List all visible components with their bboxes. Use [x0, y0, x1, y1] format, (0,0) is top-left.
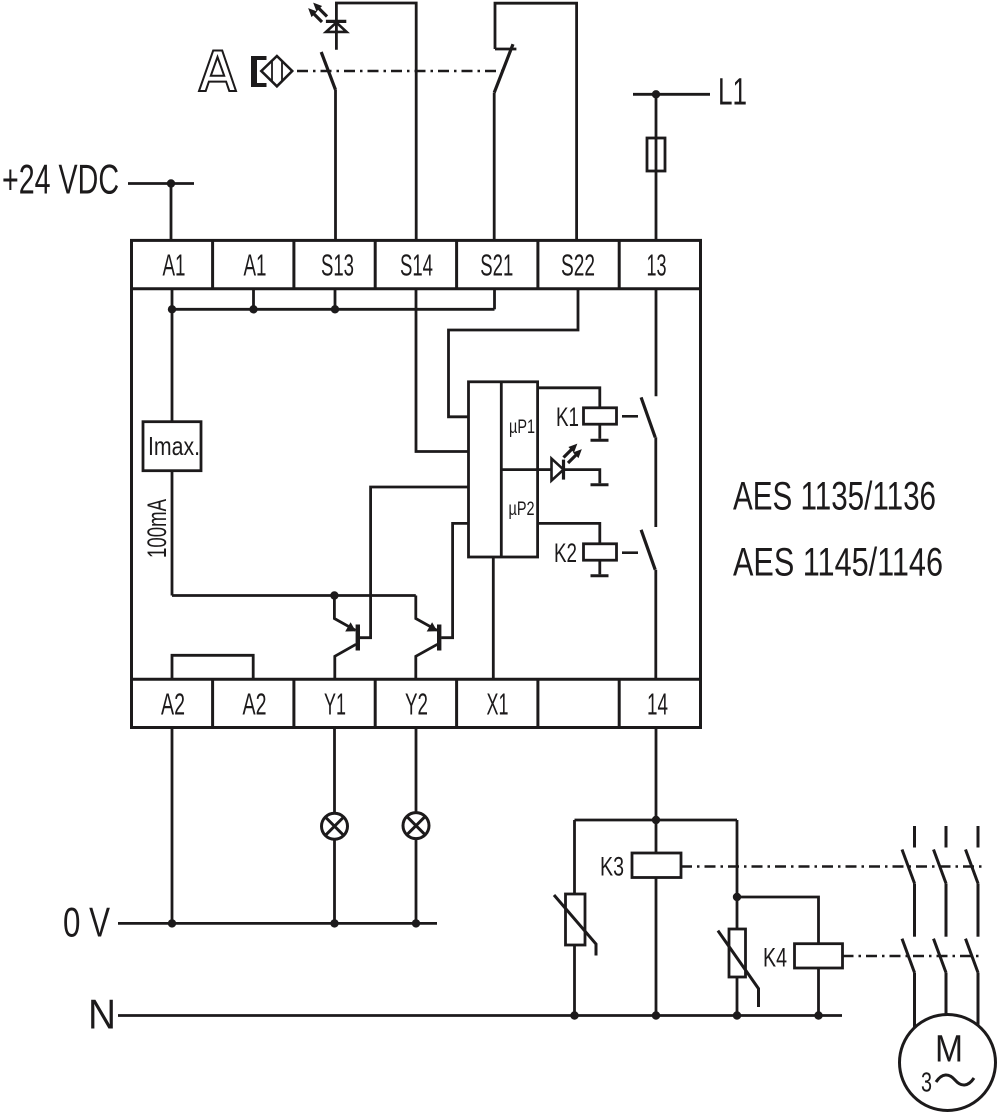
block uP outline	[469, 382, 538, 557]
junction emitter bus	[330, 591, 338, 599]
svg-text:S22: S22	[561, 248, 595, 283]
relay coil K1	[584, 408, 617, 424]
terminal row top bottom edge	[132, 287, 701, 290]
wire Imax to emitter bus	[171, 471, 174, 596]
svg-text:µP2: µP2	[509, 499, 535, 520]
contactor coil K3	[632, 853, 681, 878]
contact K3 phase 2	[934, 826, 947, 937]
junction N varistor2	[733, 1011, 741, 1019]
svg-text:S14: S14	[400, 248, 433, 283]
wire K3 coil to N	[655, 878, 658, 1016]
junction L1	[652, 90, 660, 98]
wire varistor1 top	[573, 820, 576, 894]
sensor magnet bracket	[251, 56, 267, 87]
wire A1 to Imax	[171, 309, 174, 421]
contact sensor NC stub	[495, 48, 516, 51]
LED D1 arrow 2	[309, 9, 322, 22]
LED D2 arrow 2	[568, 450, 581, 463]
transistor Q1 emitter arrow	[345, 622, 356, 631]
svg-text:Y1: Y1	[324, 687, 346, 722]
svg-text:S21: S21	[480, 248, 513, 283]
svg-text:µP1: µP1	[509, 417, 535, 438]
svg-text:AES 1135/1136: AES 1135/1136	[733, 475, 936, 519]
terminal dividers bottom row	[213, 679, 620, 727]
LED D2 wire from uP	[538, 468, 552, 471]
sensor diamond inner chord left	[271, 61, 273, 81]
relay coil K2	[584, 544, 617, 560]
svg-text:AES 1145/1146: AES 1145/1146	[733, 541, 943, 585]
transistor Q1 base wire	[360, 487, 469, 638]
transistor Q1 collector	[335, 644, 356, 679]
wire varistor1 to N	[573, 945, 576, 1016]
wire A1 drop to terminal	[170, 184, 173, 241]
wire +24VDC feed	[128, 182, 194, 185]
wire 13 internal	[655, 289, 658, 397]
jumper A2-A2	[172, 655, 253, 679]
contactor coil K4	[795, 944, 843, 968]
motor M1 tilde	[936, 1075, 974, 1085]
wire 14 drop	[655, 728, 658, 854]
svg-text:3: 3	[921, 1067, 932, 1098]
transistor Q2 collector	[416, 644, 438, 679]
wire K4 coil to N	[817, 968, 820, 1016]
wire L1 feed	[633, 93, 710, 96]
wire S14 internal	[416, 289, 469, 452]
junction 0V Y2	[412, 919, 420, 927]
svg-text:K2: K2	[554, 538, 577, 568]
junction K4 branch	[733, 893, 741, 901]
contact K4 phase 3	[966, 939, 979, 1026]
wire 0V line	[118, 922, 437, 925]
svg-text:+24 VDC: +24 VDC	[2, 156, 119, 203]
svg-text:S13: S13	[321, 248, 354, 283]
svg-text:14: 14	[647, 687, 668, 722]
link dashed K3	[681, 865, 983, 868]
wire K1-K2 series	[654, 437, 657, 527]
wire branch bus	[575, 819, 738, 822]
actuator link dashed line	[297, 70, 502, 73]
wire Y2 to lamp	[415, 728, 418, 813]
svg-text:X1: X1	[487, 687, 509, 722]
svg-text:L1: L1	[718, 72, 747, 114]
svg-text:Y2: Y2	[405, 687, 428, 722]
contact K3 phase 3	[966, 826, 979, 937]
svg-text:A1: A1	[244, 248, 267, 283]
lamp H2	[403, 813, 429, 839]
wire K4 branch drop	[736, 820, 739, 929]
link dash K1	[622, 415, 638, 418]
lamp H1	[322, 813, 348, 839]
contact K1 arm	[641, 397, 655, 437]
LED D2 arrow 1	[564, 445, 577, 458]
sensor proximity diamond	[261, 56, 292, 86]
svg-text:K1: K1	[556, 402, 579, 432]
wire sensor loop top	[336, 3, 416, 241]
module AES outline	[132, 240, 701, 727]
transistor Q2 base wire	[441, 523, 468, 637]
wire lamp H1 to 0V	[333, 839, 336, 923]
contact K3 phase 1	[902, 826, 915, 937]
wire branch to K4 coil	[737, 897, 819, 944]
common T symbol K2	[591, 574, 609, 577]
svg-text:N: N	[88, 991, 116, 1038]
wire varistor2 to N	[736, 977, 739, 1016]
motor M1 circle	[900, 1015, 996, 1111]
wire Y1 to lamp	[333, 728, 336, 814]
LED D1 arrow 1	[314, 4, 327, 17]
svg-text:A2: A2	[243, 687, 267, 722]
wire N line	[118, 1014, 842, 1017]
link dash K2	[622, 551, 638, 554]
terminal row bottom top edge	[132, 678, 701, 681]
wire S21-S22 loop top	[495, 3, 577, 240]
LED D2 triangle	[552, 459, 564, 481]
wire X1 from uP	[492, 557, 495, 679]
transistor Q1 emitter	[334, 596, 355, 631]
wire S21 drop	[493, 93, 496, 241]
junction 14 branch	[652, 816, 660, 824]
transistor Q2 emitter arrow	[427, 622, 438, 631]
junction N K4	[814, 1011, 822, 1019]
junction bus A1b	[249, 305, 257, 313]
svg-text:Imax.: Imax.	[148, 431, 200, 461]
svg-text:13: 13	[647, 248, 667, 283]
wire A2 to 0V	[171, 728, 174, 924]
varistor R1	[566, 894, 586, 945]
LED D2 cathode bar	[562, 460, 565, 480]
contact sensor NC arm	[494, 44, 513, 92]
junction 0V A2	[168, 919, 176, 927]
junction 0V Y1	[330, 919, 338, 927]
wire S21 stub	[493, 289, 496, 310]
junction N varistor1	[570, 1011, 578, 1019]
contact K2 arm	[641, 530, 655, 570]
svg-text:A1: A1	[163, 248, 186, 283]
LED D1 cathode bar	[326, 20, 346, 23]
wire lamp H2 to 0V	[415, 839, 418, 924]
wire S13 stub	[334, 289, 337, 310]
svg-text:100mA: 100mA	[142, 499, 172, 558]
contact K4 phase 1	[902, 939, 915, 1027]
contact K4 phase 2	[934, 939, 947, 1015]
link dashed K4	[843, 955, 984, 958]
wire LED to common	[564, 470, 600, 484]
common T symbol LED	[591, 483, 609, 486]
junction bus S13	[331, 305, 339, 313]
block uP divider vertical	[500, 382, 503, 557]
junction bus A1	[168, 305, 176, 313]
junction N K3	[652, 1011, 660, 1019]
varistor R2	[729, 929, 746, 977]
wire A1b stub	[252, 289, 255, 310]
wire internal A1 bus	[171, 289, 174, 310]
wire L1 to terminal 13	[655, 94, 658, 240]
svg-text:K3: K3	[600, 852, 624, 882]
svg-text:0 V: 0 V	[63, 899, 110, 946]
wire K2 coil to common	[598, 560, 601, 574]
sensor diamond inner chord right	[281, 61, 283, 81]
wire K2 contact to 14	[654, 570, 657, 680]
transistor Q1 base bar	[356, 625, 360, 651]
wire uP1 to K1 coil	[538, 388, 600, 408]
block uP divider horizontal	[501, 468, 537, 471]
node A actuator label	[199, 51, 236, 92]
wire S13 drop	[334, 90, 337, 241]
wire K1 coil to common	[598, 424, 601, 439]
svg-text:M: M	[935, 1029, 963, 1071]
contact sensor NO arm	[321, 52, 335, 90]
terminal dividers top row	[213, 240, 620, 288]
transistor Q2 base bar	[437, 625, 441, 651]
svg-text:K4: K4	[763, 943, 787, 973]
transistor Q2 emitter	[416, 596, 437, 631]
wire uP2 to K2 coil	[538, 523, 600, 543]
svg-text:A2: A2	[161, 687, 185, 722]
junction +24VDC/A1	[167, 179, 175, 187]
block Imax	[143, 422, 201, 471]
wire emitter bus	[172, 594, 416, 597]
LED D1 triangle	[326, 23, 347, 32]
common T symbol K1	[591, 439, 609, 442]
fuse F1	[647, 138, 665, 171]
wire S22 internal	[449, 289, 579, 417]
